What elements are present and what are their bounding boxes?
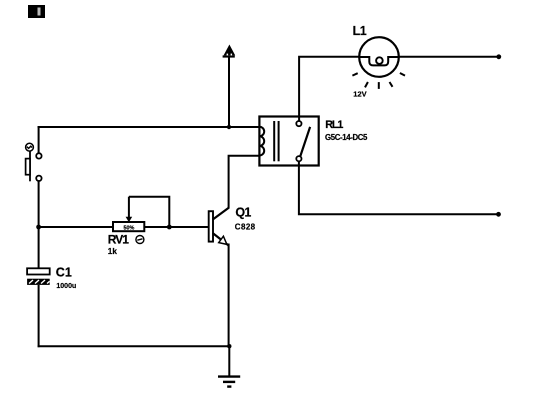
svg-text:1k: 1k <box>108 247 118 256</box>
switch SW1 contact top <box>36 153 41 158</box>
node junction RV1 wiper <box>167 225 172 230</box>
lamp L1 rays <box>352 73 405 89</box>
node junction bottom <box>227 344 231 348</box>
svg-text:12V: 12V <box>353 90 366 99</box>
artifact mark top-left <box>28 5 45 18</box>
wire C1 bottom <box>38 285 40 347</box>
node junction top <box>227 125 231 129</box>
wire top horizontal <box>38 126 260 128</box>
power arrow VCC <box>223 45 236 58</box>
wire relay top contact to lamp <box>299 57 359 122</box>
potentiometer RV1 body <box>113 222 144 232</box>
svg-text:L1: L1 <box>353 24 367 38</box>
relay RL1 coil <box>259 127 264 156</box>
wire switch to junction <box>38 181 40 228</box>
relay RL1 core <box>274 121 278 161</box>
node junction left <box>36 225 41 230</box>
RV1 adjust symbol <box>136 236 144 244</box>
capacitor C1 <box>27 268 50 285</box>
relay RL1 contact bottom <box>296 156 301 161</box>
wire junction to RV1 <box>39 226 113 228</box>
svg-text:C828: C828 <box>235 223 256 232</box>
relay RL1 box <box>259 117 318 166</box>
relay RL1 contact top <box>296 121 301 126</box>
wire emitter down <box>228 244 230 347</box>
transistor Q1 <box>209 208 229 246</box>
wire RV1 feedback loop <box>129 197 169 227</box>
wire lamp to terminal top right <box>399 56 499 58</box>
wire relay bottom contact to terminal <box>299 161 499 214</box>
svg-text:1000u: 1000u <box>56 283 76 290</box>
wire C1 top <box>38 227 40 268</box>
switch SW1 contact bottom <box>36 176 41 181</box>
wire bottom horizontal <box>38 345 230 347</box>
wire RV1 to Q1 base <box>144 226 208 228</box>
wire VCC stem <box>228 57 230 127</box>
svg-text:G5C-14-DC5: G5C-14-DC5 <box>325 133 368 142</box>
relay RL1 switch blade <box>300 127 310 157</box>
wire ground stem <box>228 346 230 376</box>
svg-text:RV1: RV1 <box>108 233 129 247</box>
svg-text:RL1: RL1 <box>325 119 343 131</box>
wire left drop to switch <box>38 126 40 153</box>
terminal node top right <box>496 54 501 59</box>
switch SW1 actuator <box>26 143 34 181</box>
svg-text:50%: 50% <box>124 226 135 232</box>
RV1 wiper arrow <box>126 197 133 223</box>
wire collector to relay coil <box>229 156 260 209</box>
svg-text:Q1: Q1 <box>235 206 251 220</box>
svg-text:C1: C1 <box>56 266 72 280</box>
ground <box>218 377 240 387</box>
terminal node bottom right <box>496 212 501 217</box>
lamp L1 <box>359 37 399 77</box>
